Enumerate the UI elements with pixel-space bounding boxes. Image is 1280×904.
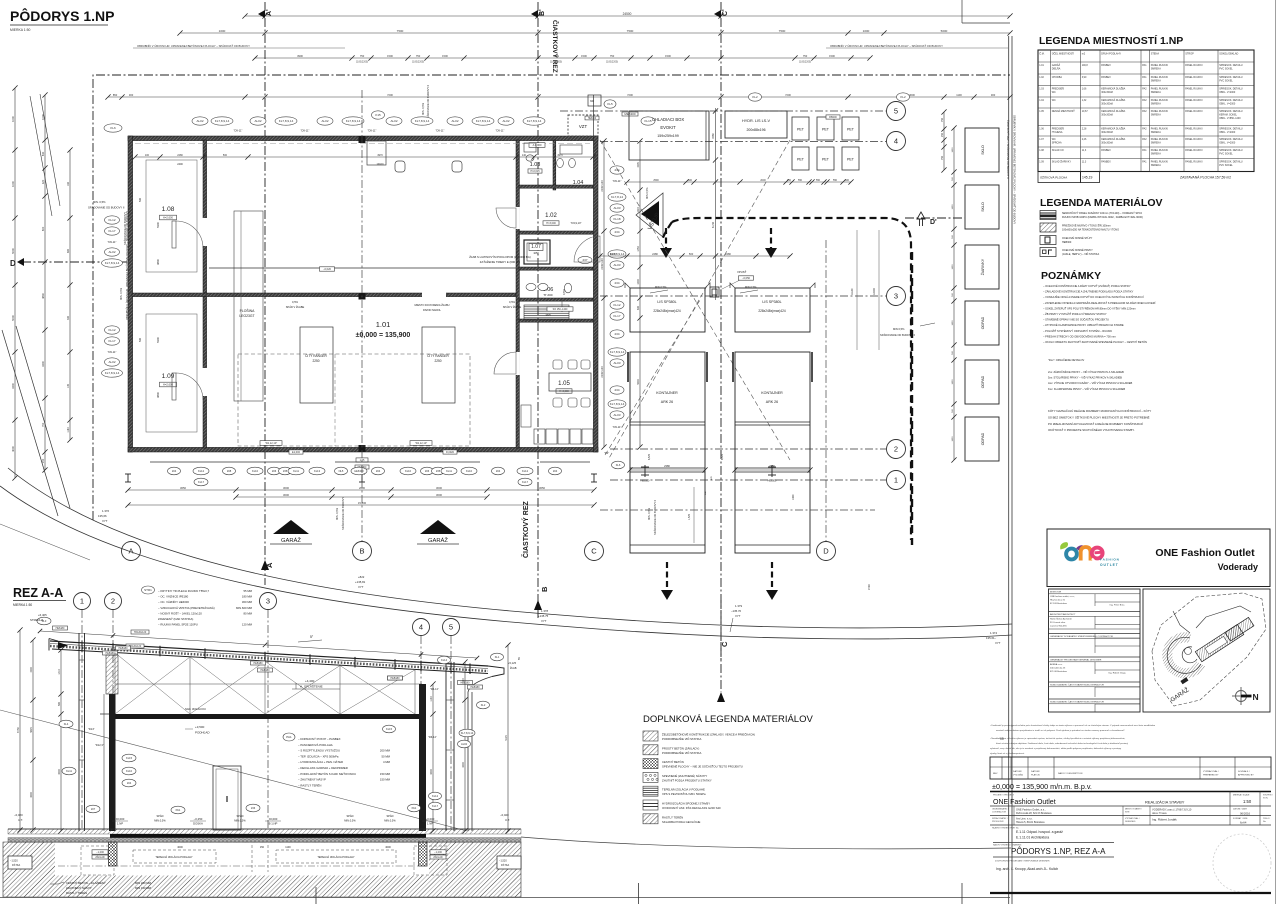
svg-text:STUPEŇ /: STUPEŇ / [1263, 794, 1273, 797]
svg-text:1.03: 1.03 [530, 162, 541, 168]
svg-text:2250: 2250 [434, 359, 441, 363]
svg-text:– ZHUTNENÝ NÁSYP: – ZHUTNENÝ NÁSYP [298, 778, 326, 782]
roof bottom chord line [115, 683, 422, 685]
svg-text:1130: 1130 [430, 696, 433, 702]
svg-text:237: 237 [582, 258, 587, 262]
svg-text:KL7,8,9,14: KL7,8,9,14 [105, 371, 120, 375]
svg-text:234: 234 [614, 230, 619, 234]
svg-text:– NOSNÝ ROŠT – JAKEL 120x120: – NOSNÝ ROŠT – JAKEL 120x120 [158, 610, 202, 615]
svg-text:– HYDROIZOLÁCIA + PEN. NÁTER: – HYDROIZOLÁCIA + PEN. NÁTER [298, 760, 343, 764]
svg-text:SPÁDOVANIE OD BUDOVY II: SPÁDOVANIE OD BUDOVY II [88, 206, 125, 210]
svg-text:OBKL. V=2000: OBKL. V=2000 [1219, 142, 1236, 145]
svg-text:N: N [1253, 692, 1259, 702]
svg-text:204: 204 [496, 469, 501, 473]
svg-text:5000: 5000 [941, 29, 948, 33]
svg-text:KL6: KL6 [616, 463, 621, 467]
property boundary dash-dot line [93, 75, 1010, 520]
building outer wall bottom [128, 447, 598, 452]
top wall annotation bubbles [104, 124, 122, 132]
svg-text:"D9-11": "D9-11" [301, 129, 310, 133]
svg-text:3800: 3800 [156, 392, 160, 398]
material symbol murivo hatch [1040, 223, 1056, 232]
chladiaci box [629, 111, 709, 160]
svg-text:PA2: PA2 [1142, 88, 1147, 91]
svg-text:PVC SOKEL: PVC SOKEL [1219, 164, 1233, 167]
svg-text:KL7,8,9,14: KL7,8,9,14 [527, 119, 542, 123]
svg-text:3000: 3000 [58, 769, 61, 775]
svg-text:WC: WC [1052, 99, 1056, 102]
svg-text:SITE: SITE [1125, 812, 1130, 814]
svg-text:AL03: AL03 [613, 263, 620, 267]
svg-text:KL7,8,9,14: KL7,8,9,14 [215, 119, 230, 123]
svg-text:300: 300 [991, 93, 996, 97]
svg-text:KL15: KL15 [126, 756, 133, 760]
svg-text:1410: 1410 [58, 669, 61, 675]
roof dim line above [40, 631, 477, 658]
svg-text:SPRCHA: SPRCHA [1052, 142, 1062, 145]
svg-text:AL02: AL02 [321, 119, 328, 123]
svg-text:KL11: KL11 [293, 469, 299, 473]
section right dims [432, 684, 434, 831]
svg-text:KL12: KL12 [108, 218, 115, 222]
svg-text:204: 204 [127, 781, 132, 785]
svg-text:150 MM: 150 MM [380, 778, 391, 782]
svg-text:ARK 26: ARK 26 [661, 400, 673, 404]
svg-text:MIN 150 MM: MIN 150 MM [135, 886, 152, 890]
svg-text:SKLAD ŽIARIVKY: SKLAD ŽIARIVKY [1052, 161, 1072, 164]
svg-text:208: 208 [227, 469, 232, 473]
svg-text:−1,200: −1,200 [434, 851, 442, 854]
svg-text:"D9-11": "D9-11" [108, 240, 117, 244]
svg-text:100,8: 100,8 [1082, 64, 1089, 67]
svg-text:−1,520: −1,520 [10, 860, 18, 863]
svg-text:1000: 1000 [637, 279, 640, 285]
uzitkova plocha box [1038, 172, 1081, 183]
container exit arrow 1 [665, 228, 667, 250]
svg-text:ZODPOVEDNÝ PROJEKTANT / RESPON: ZODPOVEDNÝ PROJEKTANT / RESPONSIBLE DESI… [995, 860, 1050, 863]
svg-text:1.02: 1.02 [1039, 76, 1044, 79]
svg-text:1400: 1400 [952, 147, 954, 153]
svg-text:PA1: PA1 [412, 806, 417, 810]
svg-text:ONE Fashion Outlet: ONE Fashion Outlet [1155, 547, 1255, 559]
wc fixtures 1.04 [557, 158, 564, 167]
site boundary dashed [1152, 593, 1266, 706]
svg-text:okres: Trnava: okres: Trnava [1152, 812, 1167, 815]
grid circle 4 right [887, 132, 906, 151]
svg-text:RASTLÝ TERÉN: RASTLÝ TERÉN [662, 814, 683, 819]
svg-text:Hlavná 5, 81101 Bratislava: Hlavná 5, 81101 Bratislava [1016, 821, 1045, 824]
svg-text:800: 800 [637, 305, 640, 310]
svg-text:KL7,8,9,14: KL7,8,9,14 [105, 261, 120, 265]
city ranger box 2 [422, 327, 455, 403]
svg-text:"D9-11": "D9-11" [496, 129, 505, 133]
interior wall below 1.06 [519, 298, 593, 301]
svg-text:PANEL RUUKKI: PANEL RUUKKI [1151, 88, 1169, 91]
svg-text:06/2016: 06/2016 [1240, 812, 1251, 816]
svg-text:D,0020: D,0020 [446, 451, 455, 454]
svg-text:ARK 26: ARK 26 [766, 400, 778, 404]
section flag C arrow [717, 692, 725, 702]
svg-text:NAD. IZOLÁCIOU: NAD. IZOLÁCIOU [185, 707, 206, 711]
chladiaci dim 1560 [715, 108, 717, 300]
material symbol ocelove stlpy [1040, 236, 1056, 245]
svg-text:1100(2200): 1100(2200) [606, 61, 618, 64]
svg-text:PÔDORYS 1.NP, REZ A-A: PÔDORYS 1.NP, REZ A-A [1011, 847, 1106, 856]
svg-text:OBKL. V=850–1400: OBKL. V=850–1400 [1219, 117, 1241, 120]
svg-text:ČIASTKOVÝ REZ: ČIASTKOVÝ REZ [551, 20, 560, 73]
svg-text:840: 840 [41, 151, 45, 156]
svg-text:750: 750 [41, 422, 45, 427]
svg-text:1000: 1000 [11, 181, 15, 187]
svg-text:1100: 1100 [462, 678, 465, 684]
svg-text:SPRIESOK. DETAILU: SPRIESOK. DETAILU [1219, 64, 1243, 67]
svg-text:SMREKA: SMREKA [1151, 114, 1162, 117]
shower room 1.07 [524, 240, 550, 264]
svg-text:SKLADBA PODĽA GEOLÓGIE: SKLADBA PODĽA GEOLÓGIE [662, 819, 701, 824]
svg-text:PANEL RUUKKI: PANEL RUUKKI [1185, 149, 1203, 152]
svg-text:– PANCIEROVÁ PODLAHA: – PANCIEROVÁ PODLAHA [298, 743, 333, 747]
svg-text:0,5%: 0,5% [509, 300, 516, 304]
washbasin 1.06 [526, 283, 536, 290]
svg-text:6,570: 6,570 [648, 453, 651, 460]
svg-text:LIS SP380L: LIS SP380L [657, 300, 676, 304]
svg-text:3600: 3600 [909, 93, 915, 97]
svg-text:SPRIESOK. DETAILU: SPRIESOK. DETAILU [1219, 99, 1243, 102]
svg-text:U.T.: U.T. [505, 818, 510, 822]
svg-text:PANBEX: PANBEX [1101, 149, 1111, 152]
svg-text:00: 00 [1000, 737, 1004, 741]
svg-text:NL5: NL5 [339, 469, 344, 473]
svg-text:"B" 2000: "B" 2000 [543, 294, 553, 297]
svg-text:1.05: 1.05 [1039, 110, 1044, 113]
svg-text:5300: 5300 [156, 337, 160, 343]
left column hatched pier [106, 655, 118, 694]
svg-text:PANEL RUUKKI: PANEL RUUKKI [1185, 138, 1203, 141]
svg-text:1000: 1000 [792, 494, 795, 500]
svg-text:LEO23GT: LEO23GT [239, 314, 254, 318]
svg-text:565: 565 [58, 701, 61, 706]
svg-text:"D12,3": "D12,3" [95, 743, 104, 747]
svg-text:AL02: AL02 [196, 119, 203, 123]
right wall black [419, 684, 426, 831]
sill lines below building [150, 461, 310, 463]
svg-text:2000: 2000 [760, 179, 766, 182]
sink counter 1.05 [521, 405, 531, 427]
svg-text:SMREKA: SMREKA [1151, 142, 1162, 145]
svg-text:SMREKA: SMREKA [1151, 80, 1162, 83]
svg-text:DOSKA: DOSKA [193, 822, 203, 826]
svg-text:150: 150 [260, 846, 265, 849]
svg-text:160: 160 [67, 181, 70, 186]
svg-text:PRODUCER: PRODUCER [992, 821, 1004, 823]
svg-text:1.08: 1.08 [1039, 149, 1044, 152]
svg-text:3400: 3400 [41, 361, 45, 367]
road curve main upper [8, 468, 1012, 628]
svg-text:1.07: 1.07 [1039, 138, 1044, 141]
door gap mid wall [422, 293, 446, 298]
svg-text:5003: 5003 [637, 379, 640, 385]
svg-text:"D3,9,10": "D3,9,10" [571, 221, 582, 225]
svg-text:HYDR. LIS LS-V: HYDR. LIS LS-V [742, 119, 771, 123]
wall insulation left column [109, 694, 116, 831]
svg-text:E.1.11 Odpad. hospod. a garáž: E.1.11 Odpad. hospod. a garáž [1016, 830, 1063, 834]
svg-text:10,67: 10,67 [1082, 110, 1089, 113]
overall dimension 24500 [245, 15, 1010, 17]
svg-text:KL17: KL17 [198, 480, 205, 484]
svg-text:3650: 3650 [539, 486, 545, 490]
dashed vertical hatch splits [251, 845, 253, 872]
terrain diagonal through section [0, 710, 467, 831]
svg-text:PA1: PA1 [1142, 161, 1147, 164]
garage triangle 1 [273, 520, 309, 534]
svg-text:SUBDODÁVATEĽ ČASTI STAVBY/SUBC: SUBDODÁVATEĽ ČASTI STAVBY/SUBCONTRACTOR [1050, 701, 1104, 704]
svg-text:1000: 1000 [863, 29, 870, 33]
svg-text:5825: 5825 [30, 727, 33, 733]
svg-text:4840: 4840 [41, 293, 45, 299]
svg-text:AL02: AL02 [108, 360, 115, 364]
svg-text:250: 250 [941, 132, 944, 137]
svg-text:– RUUKKI PANEL SP2E 120PU: – RUUKKI PANEL SP2E 120PU [158, 623, 198, 627]
svg-text:(JAKLE, HEB"w") – VIĎ STATIKA: (JAKLE, HEB"w") – VIĎ STATIKA [1062, 253, 1099, 256]
svg-text:m2: m2 [1082, 53, 1086, 56]
svg-text:6,570: 6,570 [721, 453, 724, 460]
svg-text:206: 206 [272, 469, 277, 473]
svg-text:Halmi Štefan Architekt: Halmi Štefan Architekt [1050, 618, 1072, 621]
grid circle C [585, 542, 604, 561]
site garaz marker [1180, 677, 1188, 684]
svg-text:E.1.11.01 Architektúra: E.1.11.01 Architektúra [1016, 836, 1049, 840]
svg-text:750: 750 [416, 54, 421, 58]
svg-text:300: 300 [67, 315, 70, 320]
svg-text:300: 300 [590, 100, 595, 103]
svg-text:SKLO: SKLO [981, 145, 985, 155]
svg-text:300x300x8: 300x300x8 [1101, 103, 1113, 106]
svg-text:VYD.DŇA: VYD.DŇA [1013, 774, 1023, 777]
svg-text:MIN 0,5%: MIN 0,5% [645, 187, 649, 199]
svg-text:1.05: 1.05 [558, 381, 570, 387]
revision table [990, 757, 1271, 779]
svg-text:HEB180: HEB180 [254, 662, 264, 665]
svg-text:POZNÁMKY: POZNÁMKY [1041, 269, 1101, 282]
svg-text:1100: 1100 [285, 846, 291, 849]
svg-text:3: 3 [894, 292, 898, 301]
ceiling band black [115, 714, 422, 719]
heb180 labels on roof [103, 651, 118, 655]
door arc room 1.02 entry [496, 208, 516, 228]
svg-text:PREPARED BY: PREPARED BY [1203, 774, 1219, 777]
column B mid wall [359, 293, 366, 300]
right downpipe [468, 677, 492, 832]
svg-text:5000: 5000 [11, 248, 15, 254]
roof purlin ticks [81, 641, 83, 652]
svg-text:1500: 1500 [387, 54, 393, 58]
svg-text:1.NP: 1.NP [117, 822, 123, 826]
svg-text:ZÁKLAD: ZÁKLAD [433, 856, 443, 859]
svg-text:1.04: 1.04 [573, 180, 584, 186]
svg-text:MIN.0,5%: MIN.0,5% [384, 819, 396, 823]
room label 1.07 [529, 244, 543, 251]
svg-text:B 1.NP: B 1.NP [269, 822, 278, 826]
left road diagonal [2, 330, 58, 516]
svg-text:KL12: KL12 [613, 303, 620, 307]
svg-text:VODERADY, parc.č.1766/7,8,9,10: VODERADY, parc.č.1766/7,8,9,10 [1152, 808, 1192, 812]
svg-text:5300: 5300 [156, 222, 160, 228]
section grid circle 1 [74, 593, 91, 610]
svg-text:PANEL RUUKKI: PANEL RUUKKI [1151, 99, 1169, 102]
interior wall below 1.02 [519, 231, 593, 234]
svg-text:750: 750 [610, 54, 615, 58]
bottom exit arrows below containers [666, 562, 668, 592]
svg-text:80 MM: 80 MM [243, 611, 252, 615]
drain tick below ground [315, 887, 317, 904]
svg-text:2: 2 [111, 597, 115, 606]
svg-text:1000: 1000 [219, 29, 226, 33]
svg-text:2480: 2480 [652, 252, 658, 256]
svg-text:PANEL RUUKKI: PANEL RUUKKI [1185, 128, 1203, 131]
svg-text:PROJEKT / PROJECT: PROJEKT / PROJECT [993, 795, 1015, 797]
svg-text:E1,000: E1,000 [292, 451, 301, 454]
svg-text:PO ZREALIZOVANÍ AKTUALIZOVAŤ A: PO ZREALIZOVANÍ AKTUALIZOVAŤ A REÁLNE RO… [1048, 421, 1143, 426]
interior wall 1.03-1.04 divider [553, 140, 556, 190]
svg-text:KL2: KL2 [752, 95, 758, 99]
section line A-prime [264, 2, 266, 585]
svg-text:1000: 1000 [11, 116, 15, 122]
svg-text:KL11: KL11 [66, 769, 72, 773]
yard boundary dashdot y510 [600, 509, 875, 511]
svg-text:234: 234 [614, 332, 619, 336]
svg-text:MIN.600 MM: MIN.600 MM [236, 606, 253, 610]
svg-text:3000: 3000 [283, 493, 289, 497]
svg-text:2250: 2250 [312, 359, 319, 363]
titleblock bottom thick line [990, 892, 1271, 894]
svg-text:3: 3 [266, 597, 270, 606]
svg-text:KL10: KL10 [126, 769, 133, 773]
svg-text:2,26: 2,26 [1082, 138, 1087, 141]
svg-text:300: 300 [845, 179, 850, 182]
svg-text:VZT: VZT [579, 124, 588, 129]
section grid circle 2 [105, 593, 122, 610]
svg-text:3000: 3000 [436, 493, 442, 497]
foundation dashed outline right [414, 846, 447, 875]
dashdot line through foundation zone [58, 865, 428, 867]
svg-text:ODPAD: ODPAD [981, 432, 985, 445]
section left dims [19, 630, 21, 830]
svg-text:SCHVÁLIL /: SCHVÁLIL / [1238, 770, 1250, 773]
svg-text:ARCHITEKT/ARCHITECT: ARCHITEKT/ARCHITECT [1050, 613, 1076, 616]
svg-text:180 MM: 180 MM [242, 595, 253, 599]
svg-text:2200/1100: 2200/1100 [601, 258, 604, 270]
svg-text:SÚ BEZ OMIETOK !! ÚŽITKOVÉ PLO: SÚ BEZ OMIETOK !! ÚŽITKOVÉ PLOCHY MIESTN… [1048, 414, 1150, 419]
svg-text:SPÁDOVANIE OD BUDOVY: SPÁDOVANIE OD BUDOVY [123, 212, 127, 245]
grid circle 2 right [887, 440, 906, 459]
svg-text:ST.N.: ST.N. [1263, 798, 1269, 800]
grid circle B [353, 542, 372, 561]
svg-text:PET: PET [822, 128, 830, 132]
svg-text:MIN.0,5%: MIN.0,5% [234, 819, 246, 823]
svg-text:KL7,8,9,14: KL7,8,9,14 [610, 350, 625, 354]
svg-text:1000: 1000 [610, 252, 616, 256]
svg-text:750: 750 [360, 54, 365, 58]
svg-text:KL5: KL5 [607, 102, 613, 106]
svg-text:235: 235 [436, 469, 441, 473]
svg-text:1:50: 1:50 [1243, 799, 1252, 804]
interior wall vertical main [203, 140, 207, 448]
foundation left white box [8, 856, 32, 869]
svg-text:750: 750 [941, 117, 944, 122]
svg-text:5125: 5125 [505, 735, 508, 741]
inner room outline 1.08 [146, 160, 197, 272]
svg-text:Ars Line, s.r.o.: Ars Line, s.r.o. [1016, 817, 1033, 821]
svg-text:C: C [720, 641, 729, 647]
svg-text:MIN. 0,5%: MIN. 0,5% [421, 102, 425, 115]
lis machine 1 [630, 288, 705, 332]
svg-text:KL7,8,9,14: KL7,8,9,14 [279, 119, 294, 123]
svg-text:SUBDODÁVATEĽ ČASTI STAVBY/SUBC: SUBDODÁVATEĽ ČASTI STAVBY/SUBCONTRACTOR [1050, 684, 1104, 687]
svg-text:VYPRACOVAL /: VYPRACOVAL / [1203, 770, 1219, 773]
svg-text:KERAMICKÁ DLAŽBA: KERAMICKÁ DLAŽBA [1101, 110, 1125, 113]
svg-text:OBJEDNÁVATEĽ /: OBJEDNÁVATEĽ / [992, 808, 1009, 811]
svg-text:206: 206 [425, 469, 430, 473]
svg-text:PODHĽAD: PODHĽAD [195, 731, 210, 735]
svg-text:PVC SOKEL: PVC SOKEL [1219, 68, 1233, 71]
svg-text:SPRIESOK. DETAILU: SPRIESOK. DETAILU [1219, 161, 1243, 164]
svg-text:C: C [591, 547, 597, 556]
svg-text:B: B [359, 547, 364, 556]
svg-text:KL17: KL17 [522, 480, 529, 484]
svg-text:SPRIESOK. DETAILU: SPRIESOK. DETAILU [1219, 138, 1243, 141]
svg-text:PET: PET [847, 158, 855, 162]
bottom tick marks [638, 883, 640, 904]
svg-text:KL12: KL12 [108, 328, 115, 332]
bottom dim row 3 [128, 504, 594, 506]
svg-text:300 MM: 300 MM [242, 600, 253, 604]
door gap wall 1.08 [203, 218, 208, 246]
svg-text:5: 5 [894, 107, 898, 116]
svg-text:1500: 1500 [442, 54, 448, 58]
svg-text:ONE fashion outlet, s.r.o.,: ONE fashion outlet, s.r.o., [1050, 595, 1075, 598]
svg-text:KL7,8,9,14: KL7,8,9,14 [346, 119, 361, 123]
plosina vertical strip [234, 211, 263, 401]
svg-text:SMREKA: SMREKA [1151, 68, 1162, 71]
svg-text:MIESTO STAVBY /: MIESTO STAVBY / [1125, 808, 1142, 811]
svg-text:MIN. 0,5%: MIN. 0,5% [647, 507, 651, 520]
svg-text:1400: 1400 [952, 320, 954, 326]
svg-text:PET: PET [797, 158, 805, 162]
svg-text:100: 100 [145, 154, 150, 157]
svg-text:KL17: KL17 [108, 339, 115, 343]
section line B-prime [537, 2, 539, 618]
foundation dashed outline left [81, 846, 114, 875]
svg-text:KERAMICKÁ DLAŽBA: KERAMICKÁ DLAŽBA [1101, 88, 1125, 91]
svg-text:PVC SOKEL: PVC SOKEL [1219, 153, 1233, 156]
door arc hall to 1.05 [494, 352, 516, 374]
svg-text:HE6300: HE6300 [588, 118, 597, 120]
svg-text:11180: 11180 [851, 288, 854, 295]
svg-text:AL02: AL02 [461, 742, 468, 746]
svg-text:−0,250: −0,250 [194, 817, 203, 821]
ground white cut for insulation [55, 843, 429, 876]
grid circle 5 right [887, 102, 906, 121]
svg-text:STRECHA: STRECHA [30, 618, 43, 622]
svg-text:11,3: 11,3 [1082, 149, 1087, 152]
long bottom line under ground [0, 897, 1010, 899]
roof right gutter [488, 666, 504, 677]
svg-text:LEGENDA MIESTNOSTÍ 1.NP: LEGENDA MIESTNOSTÍ 1.NP [1039, 34, 1183, 47]
svg-text:KERAMICKÁ DLAŽBA: KERAMICKÁ DLAŽBA [1101, 128, 1125, 131]
svg-text:RASTLÝ TERÉN: RASTLÝ TERÉN [66, 890, 87, 895]
grid circle A [122, 542, 141, 561]
wc 1.06 [564, 283, 571, 293]
